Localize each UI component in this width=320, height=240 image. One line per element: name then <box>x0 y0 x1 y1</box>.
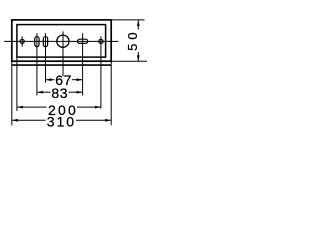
svg-text:50: 50 <box>125 28 140 50</box>
svg-text:83: 83 <box>51 85 68 101</box>
svg-text:310: 310 <box>47 114 76 130</box>
